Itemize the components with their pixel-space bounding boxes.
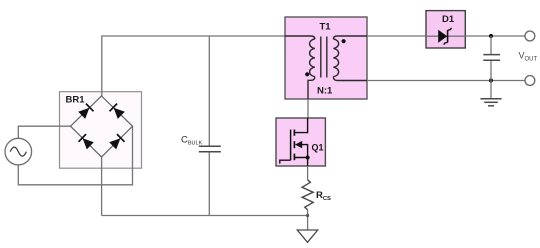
transformer primary polarity dot [305, 72, 309, 76]
output capacitor wires [490, 36, 492, 81]
wire through D1 [426, 35, 465, 37]
junction node top output [489, 34, 493, 38]
capacitor CBULK wires [208, 36, 210, 216]
wire: Q1 source to RCS [307, 166, 309, 180]
output terminal bottom [525, 76, 535, 86]
wire: bottom rail [102, 215, 308, 217]
mosfet box Q1 [276, 118, 325, 166]
bridge diode top-left [78, 104, 94, 120]
AC source V1 [5, 138, 32, 165]
wire: AC source top to bridge left vertex [18, 126, 70, 138]
bridge diode top-right [110, 104, 126, 120]
transformer core [321, 37, 327, 78]
svg-text:BR1: BR1 [66, 95, 86, 106]
mosfet Q1 symbol [280, 118, 308, 166]
wire: D1 to output node [465, 35, 525, 37]
transformer primary winding [285, 36, 315, 99]
diode box D1 [426, 11, 465, 48]
bridge box BR1 [60, 92, 142, 169]
svg-text:T1: T1 [320, 22, 332, 33]
transformer secondary winding [333, 36, 367, 81]
transformer box T1 [285, 17, 367, 99]
wire: AC source bottom to bridge right vertex [18, 126, 132, 185]
transformer secondary polarity dot [342, 39, 346, 43]
svg-text:N:1: N:1 [317, 86, 333, 97]
wire: output node to ground [490, 81, 492, 99]
junction node bottom output [489, 78, 493, 82]
wire: T1 primary to Q1 drain [307, 99, 309, 118]
ground (chassis triangle) [297, 230, 317, 242]
diode D1 symbol [438, 28, 451, 45]
wire: T1 secondary top to D1 [367, 35, 426, 37]
output capacitor plates [483, 55, 500, 61]
wire: bridge bottom vertex down to bottom rail [101, 157, 103, 216]
svg-text:D1: D1 [442, 14, 455, 25]
output terminal top [525, 31, 535, 41]
junction dot Q1 source [306, 155, 310, 159]
ground (output, 3-bar) [480, 99, 501, 106]
junction: bottom rail to RCS ground wire [306, 214, 309, 217]
wire: RCS to ground [307, 210, 309, 230]
wire: top rail from bridge to T1 [102, 36, 285, 96]
resistor RCS [302, 180, 313, 210]
bridge diode bottom-left [79, 134, 95, 150]
capacitor CBULK plates [199, 146, 221, 152]
wire: secondary bottom rail to output [367, 80, 525, 82]
bridge diode bottom-right [109, 134, 125, 150]
bridge diamond wires [71, 96, 133, 157]
svg-text:Q1: Q1 [312, 143, 324, 153]
